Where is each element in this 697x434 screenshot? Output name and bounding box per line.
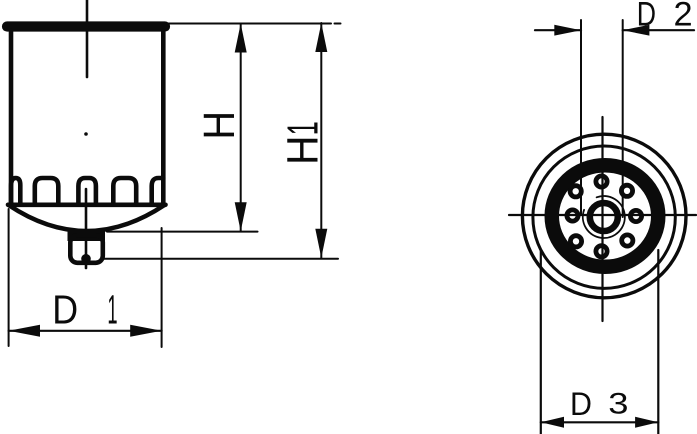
svg-text:D: D	[52, 287, 78, 333]
H bottom extension line	[107, 231, 258, 233]
inlet hole bottom	[596, 246, 607, 257]
inner rim circle	[533, 146, 675, 288]
crown arch 2	[35, 178, 59, 203]
D2 dimension line left part	[535, 29, 581, 31]
crown arch 5	[152, 178, 164, 203]
svg-text:3: 3	[608, 388, 628, 421]
D2 right extension line	[622, 20, 624, 217]
bottom dome arc	[9, 205, 165, 231]
inlet hole bottom-right	[622, 235, 633, 246]
H1 bottom arrow	[315, 229, 327, 258]
nub top black band	[68, 231, 106, 242]
inlet hole left	[567, 210, 578, 221]
crown arch 4	[113, 178, 136, 203]
left body wall	[9, 31, 14, 205]
inlet hole bottom-left	[570, 236, 581, 247]
gasket black ring	[552, 165, 659, 267]
vertical centerline of bottom view	[601, 117, 603, 321]
inlet hole top-left	[570, 186, 581, 197]
crown arch 3	[78, 178, 96, 203]
inlet hole right	[630, 210, 641, 221]
D3 right extension line	[657, 250, 659, 434]
horizontal centerline of bottom view	[509, 214, 696, 216]
D3 left arrow	[541, 417, 564, 428]
svg-text:H: H	[279, 135, 328, 165]
center dot mark	[84, 132, 88, 136]
inlet hole top-right	[621, 185, 632, 196]
crown baseline	[8, 203, 166, 208]
top cap bar	[7, 21, 165, 31]
top extension line	[167, 23, 331, 25]
D1 left extension line	[8, 209, 10, 346]
H dimension line	[240, 24, 242, 232]
H1 bottom extension line	[104, 258, 338, 260]
svg-text:H: H	[194, 111, 243, 140]
svg-text:1: 1	[278, 121, 327, 135]
H bottom arrow	[235, 202, 247, 231]
D2 dimension line right part	[623, 29, 694, 31]
thread circle (thin)	[583, 196, 625, 238]
nub bottom dot	[81, 254, 91, 264]
svg-text:2: 2	[674, 0, 693, 34]
D3 right arrow	[635, 417, 658, 428]
D1 left arrow	[9, 325, 40, 337]
svg-text:D: D	[637, 0, 656, 33]
D3 left extension line	[540, 250, 542, 434]
H top arrow	[235, 24, 247, 53]
H1 top arrow	[315, 23, 327, 52]
centerline top (side view axis)	[86, 0, 89, 77]
svg-text:1: 1	[107, 286, 117, 332]
thread nub	[70, 235, 103, 262]
D2 left extension line	[580, 20, 582, 215]
centerline bottom (through nub)	[85, 189, 88, 268]
central threaded hole	[590, 203, 618, 231]
D1 right arrow	[130, 325, 161, 337]
crown arch 1	[11, 178, 20, 203]
D1 dimension line	[9, 330, 162, 332]
D2 left arrow	[554, 25, 581, 36]
right body wall	[161, 31, 166, 205]
top extension line end dash	[335, 23, 341, 25]
D1 right extension line	[161, 228, 163, 347]
outer rim circle	[522, 134, 686, 298]
svg-text:D: D	[570, 385, 592, 422]
D3 dimension line	[541, 421, 659, 423]
inlet hole top	[596, 176, 607, 187]
D2 right arrow	[623, 25, 650, 36]
H1 dimension line	[320, 23, 322, 258]
